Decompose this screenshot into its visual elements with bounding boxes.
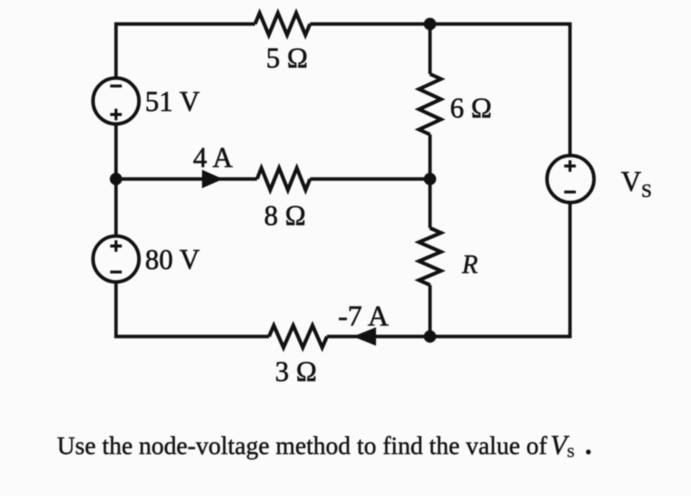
resistor 6 ohm (upper middle branch) with value label bbox=[419, 74, 492, 135]
svg-text:4 A: 4 A bbox=[193, 143, 233, 174]
svg-text:6 Ω: 6 Ω bbox=[450, 94, 492, 125]
voltage source 51 V (minus top, plus bottom) with label bbox=[93, 78, 200, 124]
svg-text:51 V: 51 V bbox=[145, 87, 200, 118]
svg-text:VS: VS bbox=[621, 167, 652, 202]
wire: from 51V source down to left middle node bbox=[114, 124, 117, 179]
resistor 3 ohm (bottom branch) with value label bbox=[269, 326, 327, 389]
svg-text:80 V: 80 V bbox=[145, 245, 200, 276]
wire: bottom-right segment from bottom node to right corner and up to Vs bbox=[430, 203, 570, 337]
wire: from resistor R down to bottom node bbox=[428, 285, 431, 337]
current arrow -7 A pointing left, with label bbox=[338, 301, 389, 346]
wire: from 6-ohm resistor down to middle node bbox=[428, 135, 431, 180]
current arrow 4 A pointing right, with label bbox=[193, 143, 233, 188]
node: bottom junction of 3-ohm, R and right branch bbox=[424, 330, 436, 342]
caption: problem statement text bbox=[57, 430, 592, 465]
node: middle junction of 8-ohm, 6-ohm and R bbox=[424, 173, 436, 185]
wire: top-left segment from 51V source up and right to 5-ohm resistor bbox=[116, 24, 255, 79]
voltage source 80 V (plus top, minus bottom) with label bbox=[93, 236, 200, 282]
wire: middle branch right segment to middle node bbox=[310, 177, 430, 180]
svg-text:8 Ω: 8 Ω bbox=[264, 201, 306, 232]
wire: middle branch left segment carrying 4A bbox=[116, 177, 257, 180]
svg-text:R: R bbox=[461, 250, 478, 279]
wire: from 80V source down to bottom-left corner and right to 3-ohm bbox=[116, 282, 269, 337]
resistor R (lower middle branch) with italic label bbox=[419, 228, 478, 285]
node: top junction of 5-ohm, 6-ohm and right branch bbox=[424, 18, 436, 30]
wire: from middle node down to resistor R bbox=[428, 179, 431, 228]
svg-text:-7 A: -7 A bbox=[338, 301, 389, 333]
wire: top segment from 5-ohm through top node to top-right corner, down to Vs bbox=[310, 24, 570, 156]
wire: left rail between middle node and 80V source bbox=[114, 179, 117, 236]
wire: bottom segment from 3-ohm to bottom node carrying -7A bbox=[327, 335, 430, 338]
svg-text:5 Ω: 5 Ω bbox=[266, 44, 308, 75]
wire: from top node down to 6-ohm resistor bbox=[428, 24, 431, 74]
resistor 5 ohm (top branch) with value label bbox=[255, 13, 310, 75]
resistor 8 ohm (middle branch) with value label bbox=[257, 168, 310, 232]
voltage source Vs (plus top, minus bottom) with label bbox=[547, 156, 652, 203]
svg-text:3 Ω: 3 Ω bbox=[275, 357, 317, 388]
node: left middle junction bbox=[110, 173, 122, 185]
